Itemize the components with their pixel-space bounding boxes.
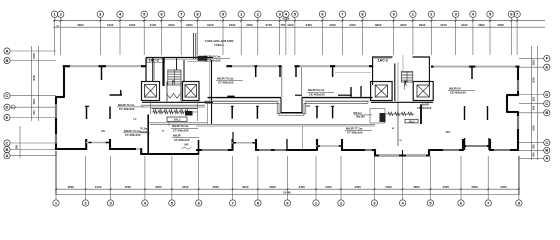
tick bottom 14 [430, 188, 432, 190]
svg-text:3600: 3600 [413, 185, 420, 189]
meter coil [158, 110, 162, 114]
tick top 5 [143, 20, 145, 22]
tick top 12 [279, 20, 281, 22]
stair tread [168, 74, 181, 76]
outer wall: bottom left 1 [55, 148, 86, 150]
grid bubble top 14 [292, 11, 298, 17]
tick top 25 [516, 20, 518, 22]
svg-text:C: C [545, 101, 548, 106]
bottom dimension line lower [56, 194, 519, 196]
svg-text:CT-400x150: CT-400x150 [205, 59, 221, 63]
svg-text:3600: 3600 [77, 23, 84, 27]
grid extension line top 9 [222, 17, 224, 55]
elevator car L1 [145, 85, 157, 98]
incoming feeder risers [193, 33, 195, 59]
corridor door stub 3 cap [316, 105, 319, 107]
svg-text:2400: 2400 [298, 185, 305, 189]
tick bottom 12 [373, 188, 375, 190]
outer wall: mid wing top window band 2 [300, 65, 373, 67]
svg-text:4500: 4500 [443, 185, 450, 189]
corridor alcove bottom [280, 112, 302, 114]
entrance partition below corridor [302, 126, 304, 150]
grid drop line into stair gap [402, 55, 404, 71]
meter coil [185, 110, 189, 114]
tick top 22 [472, 20, 474, 22]
core top inner line 2 [187, 61, 211, 63]
bottom band edge extension left [55, 151, 57, 195]
fire hydrant panel dark box [380, 113, 386, 122]
stair tread [168, 82, 181, 84]
tick top 8 [196, 20, 198, 22]
bay side wall [489, 139, 491, 151]
grid extension line bottom 1 [55, 156, 57, 200]
outer wall: bay bottom 1 [86, 142, 110, 144]
grid leader right 1 [519, 57, 543, 59]
tick top 19 [412, 20, 414, 22]
grid bubble right low 3 [544, 155, 550, 161]
outer wall: right notch bottom [507, 111, 519, 113]
svg-text:CT-200x100: CT-200x100 [174, 138, 190, 142]
svg-text:2400: 2400 [325, 185, 332, 189]
stair tread [401, 72, 413, 74]
grid bubble bottom 7 [230, 200, 236, 206]
dark panel box left core [185, 111, 193, 116]
svg-text:E: E [545, 65, 548, 70]
svg-text:900: 900 [16, 144, 19, 149]
lobby door jamb left [166, 82, 168, 102]
svg-text:450: 450 [532, 105, 536, 110]
dark riser bar right core [420, 104, 422, 124]
outer wall: bay bottom 4 [462, 145, 491, 147]
svg-text:C: C [6, 93, 9, 98]
interior stub left wing d [86, 106, 88, 119]
AL1 box right [405, 119, 418, 123]
grid extension line bottom 8 [257, 156, 259, 200]
balcony divider line mid-left wing [335, 71, 371, 73]
meter coil [153, 110, 157, 114]
grid bubble bottom 6 [196, 200, 202, 206]
stair tread [168, 77, 181, 79]
right core top wall right segment [413, 56, 431, 58]
mid top tee 1 [254, 65, 257, 67]
interior stub right wing d [487, 106, 489, 120]
svg-text:3000: 3000 [532, 77, 536, 83]
fire flag left core [172, 81, 174, 86]
elevator shaft L1 [142, 82, 160, 101]
window: right edge up [517, 80, 519, 91]
tick top 21 [455, 20, 457, 22]
grid extension line bottom 10 [315, 156, 317, 200]
grid leader right 4 [519, 103, 543, 105]
grid bubble top 9 [220, 11, 226, 17]
grid bubble top 8 [194, 11, 200, 17]
svg-text:2700: 2700 [266, 23, 273, 27]
grid bubble top 17 [359, 11, 365, 17]
right core block left wall [374, 149, 376, 155]
fire hydrant enclosure outline [370, 109, 385, 124]
svg-text:2400: 2400 [168, 23, 175, 27]
interior stub mid bottom a [232, 132, 234, 139]
tick bottom 8 [257, 188, 259, 190]
svg-text:B: B [6, 58, 9, 63]
grid extension line bottom 13 [402, 156, 404, 200]
interior L wall left wing [110, 94, 123, 96]
right wing top tee [469, 66, 475, 68]
grid bubble left low 3 [4, 153, 10, 159]
grid bubble right 3 [544, 91, 550, 97]
svg-text:J50.1m: J50.1m [353, 111, 362, 115]
stair tread [168, 72, 181, 74]
svg-text:4500: 4500 [212, 185, 219, 189]
grid leader left 2 [10, 60, 56, 62]
mid top corner left of entrance [279, 65, 282, 67]
grid leader right 2 [519, 66, 543, 68]
grid leader right low 2 [519, 149, 543, 151]
window: below right core 1 [379, 155, 399, 157]
outer wall: right edge lower [517, 112, 519, 151]
corridor door stub 4 cap [331, 105, 334, 107]
stair left core [168, 70, 181, 85]
interior stub right wing e [464, 138, 466, 150]
tick bottom 17 [518, 188, 520, 190]
tick top 3 [99, 20, 101, 22]
outer wall: left wing top window band [64, 65, 146, 67]
grid bubble top 22 [470, 11, 476, 17]
left core left wall inner [154, 62, 156, 80]
right core top wall left segment [372, 56, 393, 58]
right core lobby wall under shafts [371, 101, 433, 103]
right dimension line outer [537, 46, 539, 160]
outer wall: right notch side [506, 95, 508, 113]
right wing top stub [471, 67, 473, 79]
feeder terminal box [198, 56, 208, 61]
grid bubble right low 1 [544, 140, 550, 146]
svg-text:1#D: 1#D [184, 144, 189, 147]
elevator car R1 [375, 85, 387, 97]
right wing top corner [516, 66, 520, 68]
tick top 2 [60, 20, 62, 22]
interior stub bottom mid [286, 139, 288, 150]
grid extension line bottom 5 [171, 156, 173, 200]
tick top 1 [54, 20, 56, 22]
corridor alcove right side [301, 98, 303, 113]
svg-text:2100: 2100 [150, 23, 157, 27]
left core left wall [152, 58, 154, 82]
right core left wall [372, 57, 374, 85]
elevator cross R2 [417, 85, 429, 97]
svg-text:2400: 2400 [500, 185, 507, 189]
left core right wall [211, 60, 213, 125]
grid extension line top 19 [412, 17, 414, 55]
right core top wall inner [374, 58, 391, 60]
grid bubble top 25 [514, 11, 520, 17]
lobby inner wall vertical [183, 60, 185, 82]
window: bottom left 2 [136, 148, 141, 150]
corridor door stub 1 [231, 106, 233, 119]
cable tray jog down left [276, 101, 278, 113]
interior stub right wing f [488, 138, 490, 150]
tick top 15 [321, 20, 323, 22]
left core inner wall [162, 58, 164, 86]
grid extension line top 16 [342, 17, 344, 55]
bay side wall [85, 139, 87, 150]
svg-text:D: D [6, 105, 9, 110]
svg-text:2100: 2100 [440, 23, 447, 27]
grid bubble right 1 [544, 55, 550, 61]
corridor door stub 2 [256, 106, 258, 119]
stair tread [401, 73, 413, 75]
top dimension line upper [53, 20, 545, 22]
svg-text:3000: 3000 [471, 185, 478, 189]
AL1 feeder drop [168, 122, 170, 127]
grid bubble right 5 [544, 110, 550, 116]
grid bubble top 16 [339, 11, 345, 17]
svg-text:2600: 2600 [478, 23, 485, 27]
tray into left core [149, 122, 208, 124]
grid leader left low 3 [10, 155, 56, 157]
tick top 13 [285, 20, 287, 22]
bay nub 1 [89, 142, 92, 144]
grid extension line top 6 [161, 17, 163, 55]
tick top 4 [119, 20, 121, 22]
outer wall: right notch top [506, 94, 519, 96]
grid leader left 4 [10, 106, 56, 108]
tick top 6 [161, 20, 163, 22]
svg-text:D: D [545, 92, 548, 97]
svg-text:(5.18): (5.18) [283, 17, 290, 21]
corridor top wall right part [302, 97, 373, 99]
grid bubble left 5 [4, 114, 10, 120]
svg-text:FC80.m: FC80.m [214, 43, 224, 47]
bay side wall [231, 139, 233, 151]
unit wall left of alcove [295, 94, 301, 96]
grid bubble top 4 [117, 11, 123, 17]
grid bubble bottom 17 [516, 200, 522, 206]
elevator shaft R2 [413, 82, 433, 101]
tick top 17 [361, 20, 363, 22]
corridor bottom line 2 [196, 125, 375, 127]
svg-text:2400: 2400 [129, 23, 136, 27]
grid extension line bottom 14 [430, 156, 432, 200]
left core lobby side line L [150, 101, 152, 114]
elevator shaft L2 [183, 82, 200, 101]
meter coil [180, 110, 184, 114]
svg-text:900: 900 [32, 110, 36, 115]
meter coil [169, 110, 173, 114]
interior stub right wing c [464, 106, 466, 120]
grid extension line bottom 16 [487, 156, 489, 200]
tick bottom 4 [144, 188, 146, 190]
unit wall near right core h [338, 94, 352, 96]
left core lobby wall under shafts [142, 101, 213, 103]
tick top 11 [257, 20, 259, 22]
grid leader left low 2 [10, 149, 56, 151]
svg-text:CE-400x150: CE-400x150 [450, 91, 466, 95]
tick bottom 11 [340, 188, 342, 190]
grid leader right 5 [519, 112, 543, 114]
svg-text:1AL1: 1AL1 [408, 119, 415, 123]
grid extension line bottom 12 [373, 156, 375, 200]
svg-text:2100: 2100 [461, 23, 468, 27]
svg-text:3000: 3000 [32, 75, 36, 81]
svg-text:3600: 3600 [269, 185, 276, 189]
svg-text:1AL1: 1AL1 [173, 118, 181, 122]
meter coil [395, 112, 400, 116]
meter coil [388, 112, 393, 116]
outer wall: below right core [374, 154, 430, 156]
mid top corner right of entrance [295, 65, 300, 67]
grid bubble top 3 [97, 11, 103, 17]
outer wall: bottom left 2 [109, 148, 136, 150]
grid extension line top 5 [143, 17, 145, 55]
grid extension line bottom 3 [110, 156, 112, 200]
top dimension line lower [53, 26, 545, 28]
grid bubble left extra [11, 105, 15, 109]
mid top stub 4 [332, 66, 334, 77]
grid extension line top 18 [393, 17, 395, 55]
left core top wall inner [148, 58, 211, 60]
grid extension line top 22 [472, 17, 474, 55]
window: bay 4 [466, 145, 487, 147]
svg-text:2100: 2100 [95, 185, 102, 189]
window: bottom mid 2a [259, 149, 271, 151]
svg-text:3600: 3600 [68, 185, 75, 189]
bottom band edge extension right [518, 156, 520, 195]
grid bubble bottom 13 [399, 200, 405, 206]
meter coil [174, 110, 178, 114]
grid bubble bottom 12 [371, 200, 377, 206]
stair tread [401, 80, 413, 82]
svg-text:HN: HN [101, 129, 105, 133]
grid bubble top 15 [319, 11, 325, 17]
entrance side wall left [281, 66, 283, 97]
elevator cross L2 [185, 85, 197, 98]
stair tread [168, 79, 181, 81]
outer wall: bottom right 2 [489, 149, 519, 151]
grid bubble bottom 15 [458, 200, 464, 206]
unit wall stub mid-right [360, 86, 362, 97]
grid extension line bottom 2 [85, 156, 87, 200]
svg-text:A: A [545, 156, 548, 161]
grid leader left 3 [10, 95, 56, 97]
tick bottom 16 [487, 188, 489, 190]
outer wall: mid wing top window band [226, 65, 278, 67]
grid bubble top 6 [158, 11, 164, 17]
grid bubble top 2 [58, 11, 64, 17]
corridor door stub 4 [332, 106, 334, 118]
tick bottom 10 [315, 188, 317, 190]
svg-text:2000: 2000 [186, 23, 193, 27]
grid bubble left low 2 [4, 146, 10, 152]
mid top stub 2 [279, 66, 281, 77]
outer wall: bottom right 1 [429, 149, 464, 151]
bay nub [317, 145, 320, 147]
grid extension line top 17 [362, 17, 364, 55]
bay side wall [462, 139, 464, 151]
tick top 20 [430, 20, 432, 22]
grid extension line bottom 4 [144, 156, 146, 200]
tick bottom 15 [460, 188, 462, 190]
cable tray run west [205, 100, 277, 102]
outer wall: left edge upper [63, 65, 65, 97]
svg-text:70.1m: 70.1m [140, 127, 148, 131]
left dimension line outer [38, 46, 40, 121]
tick top 9 [222, 20, 224, 22]
bay nub [339, 145, 342, 147]
window: bottom mid 3 [365, 149, 372, 151]
window: bottom right 2 [494, 149, 510, 151]
grid leader right low 1 [519, 142, 543, 144]
fire flag right core [404, 81, 406, 86]
bay nub 2 [106, 142, 111, 144]
cable tray jog up right [305, 101, 307, 113]
grid bubble bottom 16 [485, 200, 491, 206]
grid bubble top 7 [178, 11, 184, 17]
elevator car L2 [185, 85, 197, 98]
svg-text:C: C [6, 140, 9, 145]
svg-text:2300: 2300 [400, 23, 407, 27]
outer wall: left wing top nub 1 [63, 65, 70, 67]
grid leader left low 1 [10, 142, 56, 144]
lobby double door W left core [167, 94, 181, 99]
unit wall near right core [350, 87, 352, 97]
grid extension line bottom 7 [232, 156, 234, 200]
stair tread [401, 78, 413, 80]
mid top tee 2 [330, 65, 335, 67]
left core right wall inner [209, 62, 211, 101]
window: left edge 1 [55, 104, 57, 118]
AL1 box left [167, 117, 187, 122]
svg-text:WG: WG [446, 130, 450, 134]
grid extension line top 21 [455, 17, 457, 55]
grid extension line top 2 [60, 17, 62, 55]
svg-text:1500: 1500 [532, 59, 536, 65]
svg-text:CT-300x100: CT-300x100 [347, 131, 363, 135]
corridor top wall [208, 97, 282, 99]
riser line down from right core [397, 102, 399, 146]
stair tread [168, 80, 181, 82]
stair tread [168, 75, 181, 77]
elevator cross R1 [375, 85, 387, 97]
grid leader left 1 [10, 50, 56, 52]
grid bubble top 11 [255, 11, 261, 17]
tick bottom 9 [286, 188, 288, 190]
svg-text:750: 750 [280, 23, 285, 27]
bay side wall [109, 139, 111, 150]
svg-text:00x100: 00x100 [356, 114, 365, 118]
grid bubble bottom 8 [255, 200, 261, 206]
corridor wall pier [227, 96, 234, 98]
grid extension line top 14 [294, 17, 296, 55]
outer wall: right edge upper [517, 66, 519, 96]
grid extension line bottom 15 [460, 156, 462, 200]
svg-text:1AC-2: 1AC-2 [149, 59, 159, 63]
corridor bottom line 1 [150, 123, 375, 125]
corridor alcove left side [280, 98, 282, 113]
left lobby wall drop to corridor [206, 101, 208, 124]
mid top stub 1 [255, 66, 257, 77]
tick top 24 [510, 20, 512, 22]
left core top wall [146, 57, 213, 59]
svg-text:2000: 2000 [246, 23, 253, 27]
left core label 1AC-2 box [147, 58, 165, 62]
svg-text:4500: 4500 [354, 185, 361, 189]
left core mid wall [176, 58, 178, 71]
grid bubble bottom 10 [313, 200, 319, 206]
svg-text:1AC-2: 1AC-2 [378, 59, 388, 63]
svg-text:CT-200x100: CT-200x100 [173, 128, 189, 132]
grid extension line top 12 [279, 17, 281, 55]
